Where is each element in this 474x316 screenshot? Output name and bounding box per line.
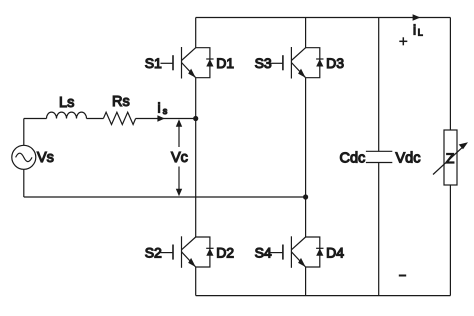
svg-text:Rs: Rs xyxy=(112,94,130,110)
transistor S3 (IGBT) xyxy=(255,47,306,79)
svg-text:D4: D4 xyxy=(326,244,344,260)
svg-text:S1: S1 xyxy=(145,55,162,71)
svg-text:S2: S2 xyxy=(145,244,162,260)
current arrow iL xyxy=(413,14,423,37)
svg-text:Cdc: Cdc xyxy=(340,151,366,167)
wire resistor to node xyxy=(136,118,196,120)
wire left leg lower xyxy=(195,267,197,296)
svg-text:D1: D1 xyxy=(216,55,234,71)
wire left leg middle xyxy=(195,78,197,237)
voltage arrow Vc xyxy=(171,119,188,196)
wire inductor to resistor xyxy=(87,118,104,120)
svg-text:Vs: Vs xyxy=(37,150,54,166)
svg-text:Ls: Ls xyxy=(59,95,74,111)
wire bottom rail xyxy=(196,295,451,297)
wire top rail xyxy=(196,17,451,19)
inductor Ls xyxy=(47,95,87,119)
diode D1 xyxy=(196,48,235,78)
current arrow is xyxy=(157,100,167,122)
svg-text:Vdc: Vdc xyxy=(396,151,421,167)
wire right leg upper xyxy=(305,18,307,48)
load Z (variable impedance) xyxy=(433,18,468,296)
svg-text:s: s xyxy=(163,106,168,116)
node left leg midpoint xyxy=(193,116,198,121)
svg-text:S3: S3 xyxy=(255,55,272,71)
diode D3 xyxy=(306,48,345,78)
transistor S4 (IGBT) xyxy=(255,236,306,267)
AC source Vs xyxy=(12,119,54,198)
svg-text:i: i xyxy=(158,100,161,116)
minus sign xyxy=(399,275,406,277)
wire bottom source return xyxy=(24,196,306,198)
transistor S2 (IGBT) xyxy=(145,236,196,267)
plus sign xyxy=(399,37,407,45)
svg-text:D2: D2 xyxy=(216,244,234,260)
diode D4 xyxy=(306,237,345,267)
capacitor Cdc xyxy=(340,18,421,296)
svg-text:D3: D3 xyxy=(326,55,344,71)
svg-text:i: i xyxy=(413,22,416,38)
wire left leg upper xyxy=(195,18,197,48)
wire right leg lower xyxy=(305,267,307,296)
svg-text:L: L xyxy=(418,28,423,38)
svg-text:Vc: Vc xyxy=(171,150,188,166)
node right leg midpoint xyxy=(303,194,308,199)
resistor Rs xyxy=(103,94,135,125)
diode D2 xyxy=(196,237,235,267)
svg-text:S4: S4 xyxy=(255,244,272,260)
wire source top to inductor xyxy=(24,118,47,120)
transistor S1 (IGBT) xyxy=(145,47,196,79)
wire right leg middle xyxy=(305,78,307,237)
